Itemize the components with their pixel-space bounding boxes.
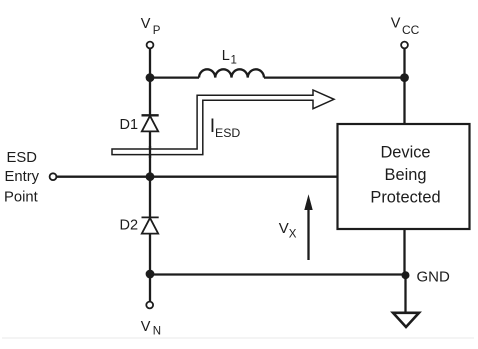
svg-text:Protected: Protected bbox=[370, 189, 440, 207]
junction at VN / bottom rail bbox=[146, 270, 155, 279]
junction at GND bbox=[402, 271, 410, 279]
ESD current path arrow (hollow bent arrow) bbox=[112, 90, 334, 155]
svg-text:Point: Point bbox=[4, 190, 38, 206]
svg-text:Entry: Entry bbox=[5, 169, 40, 185]
node VP terminal bbox=[147, 42, 154, 49]
value label L1 bbox=[222, 48, 237, 67]
wire segment redrawn over arrow band (left vertical through arrow) bbox=[149, 146, 151, 158]
node VN terminal bbox=[146, 302, 153, 309]
wire: left vertical from top rail junction down to D1 cathode bbox=[149, 78, 151, 116]
svg-text:P: P bbox=[153, 25, 161, 37]
junction at VCC / top rail bbox=[400, 73, 409, 82]
svg-text:D1: D1 bbox=[120, 117, 139, 133]
svg-text:L: L bbox=[222, 48, 230, 64]
svg-text:V: V bbox=[391, 16, 401, 32]
svg-text:Device: Device bbox=[380, 144, 430, 162]
wire: right vertical from top rail to device box top bbox=[403, 78, 405, 124]
label ESD Entry Point bbox=[4, 150, 40, 206]
node VCC terminal bbox=[401, 42, 408, 49]
wire: GND junction down to ground symbol bbox=[404, 275, 406, 312]
svg-text:GND: GND bbox=[417, 269, 451, 286]
svg-text:CC: CC bbox=[402, 23, 420, 37]
svg-text:ESD: ESD bbox=[7, 150, 37, 166]
wire: VP terminal down to top rail junction bbox=[149, 49, 151, 78]
diode D2 bbox=[142, 217, 159, 233]
wire: top rail from inductor to VCC junction bbox=[264, 76, 405, 78]
svg-text:V: V bbox=[279, 220, 289, 237]
wire: D2 anode down to bottom rail junction bbox=[149, 234, 151, 274]
svg-text:V: V bbox=[141, 16, 151, 32]
junction at ESD entry / left vertical bbox=[146, 172, 155, 181]
wire: center junction to device box left side bbox=[150, 176, 338, 178]
ground bbox=[393, 313, 419, 327]
wire: top rail from VP junction to inductor bbox=[150, 76, 199, 78]
diode D1 bbox=[142, 115, 159, 131]
inductor L1 bbox=[199, 69, 264, 77]
svg-text:D2: D2 bbox=[120, 218, 139, 234]
wire: device box bottom to GND junction bbox=[403, 229, 405, 275]
faint page rule line at bottom bbox=[2, 337, 474, 339]
svg-text:Being: Being bbox=[385, 166, 427, 184]
svg-text:1: 1 bbox=[231, 55, 237, 67]
wire: ESD entry terminal to center junction bbox=[56, 176, 150, 178]
junction at VP / top rail bbox=[146, 73, 155, 82]
svg-text:N: N bbox=[153, 326, 161, 338]
wire: bottom rail from VN junction to GND junction bbox=[150, 273, 406, 275]
label VX bbox=[279, 220, 297, 241]
svg-text:X: X bbox=[289, 229, 297, 241]
node ESD Entry Point terminal bbox=[50, 173, 57, 180]
svg-text:V: V bbox=[141, 319, 151, 335]
label VP bbox=[141, 16, 161, 37]
label IESD bbox=[210, 115, 241, 140]
wire: VCC terminal down to top rail junction bbox=[403, 49, 405, 78]
label VN bbox=[141, 319, 161, 338]
wire: VN junction down to VN terminal bbox=[149, 274, 151, 302]
label VCC bbox=[391, 16, 420, 37]
svg-text:ESD: ESD bbox=[215, 126, 240, 140]
voltage arrow VX (points up) bbox=[304, 194, 312, 260]
device box: Device Being Protected bbox=[338, 124, 470, 229]
wire: D1 anode down to ESD entry junction bbox=[149, 131, 151, 176]
wire: center junction down to D2 cathode bbox=[149, 177, 151, 218]
